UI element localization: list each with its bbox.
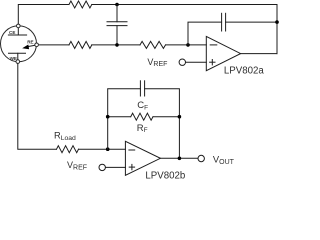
resistor R1 (top rail) <box>69 1 92 8</box>
wire feedback A up <box>188 22 222 45</box>
sensor RE arrow <box>28 45 36 47</box>
wire C2 to right vertical <box>226 21 277 23</box>
sensor terminal CE <box>17 24 21 28</box>
sensor terminal RE <box>35 43 39 47</box>
wire RE row <box>38 44 69 46</box>
sensor CE electrode <box>17 28 19 35</box>
op-amp U2 LPV802b <box>125 141 160 175</box>
wire CE terminal up to top rail <box>18 5 69 25</box>
svg-text:LPV802b: LPV802b <box>145 171 185 182</box>
sensor body circle (electrochemical cell) <box>1 26 37 62</box>
terminal VOUT <box>198 155 204 161</box>
wire RLoad to op-amp B inverting input <box>79 148 126 150</box>
node RF right <box>178 115 182 119</box>
wire RF rail right <box>153 116 179 118</box>
node B output / feedback <box>178 157 182 161</box>
wire op-amp B output <box>160 157 198 159</box>
svg-text:CE: CE <box>9 30 15 35</box>
resistor RF <box>131 113 153 120</box>
node B inverting input / feedback <box>106 147 110 151</box>
svg-text:WE: WE <box>10 56 17 61</box>
resistor R2 (RE row) <box>69 41 92 48</box>
terminal VREF a <box>186 61 207 63</box>
terminal VREF b <box>106 166 126 168</box>
svg-text:LPV802a: LPV802a <box>224 65 264 76</box>
node A inverting input / feedback <box>186 43 190 47</box>
wire feedback B left vertical <box>108 89 141 149</box>
capacitor CF <box>139 81 141 96</box>
wire R2 to R3 <box>92 44 140 46</box>
node top rail / C1 <box>115 3 119 7</box>
wire RF rail left <box>108 116 131 118</box>
resistor R3 <box>140 41 166 48</box>
op-amp U1 LPV802a <box>206 36 240 70</box>
wire WE down and RLoad row <box>18 63 57 149</box>
node feedback / output rail <box>275 20 279 24</box>
wire top rail to right side down to op-amp A output <box>92 5 277 54</box>
wire CF to right vertical down to output <box>145 89 180 159</box>
capacitor C2 (op-amp A feedback) <box>221 13 223 31</box>
sensor terminal WE <box>16 60 20 64</box>
wire R3 to op-amp A inverting input <box>166 44 207 46</box>
resistor RLoad <box>57 146 79 153</box>
svg-text:RE: RE <box>27 40 33 45</box>
sensor WE electrode <box>9 52 26 54</box>
node RF left <box>106 115 110 119</box>
wire op-amp A output <box>241 53 277 55</box>
node C1 / RE row <box>115 43 119 47</box>
capacitor C1 (between top rail and RE row) <box>116 5 118 22</box>
